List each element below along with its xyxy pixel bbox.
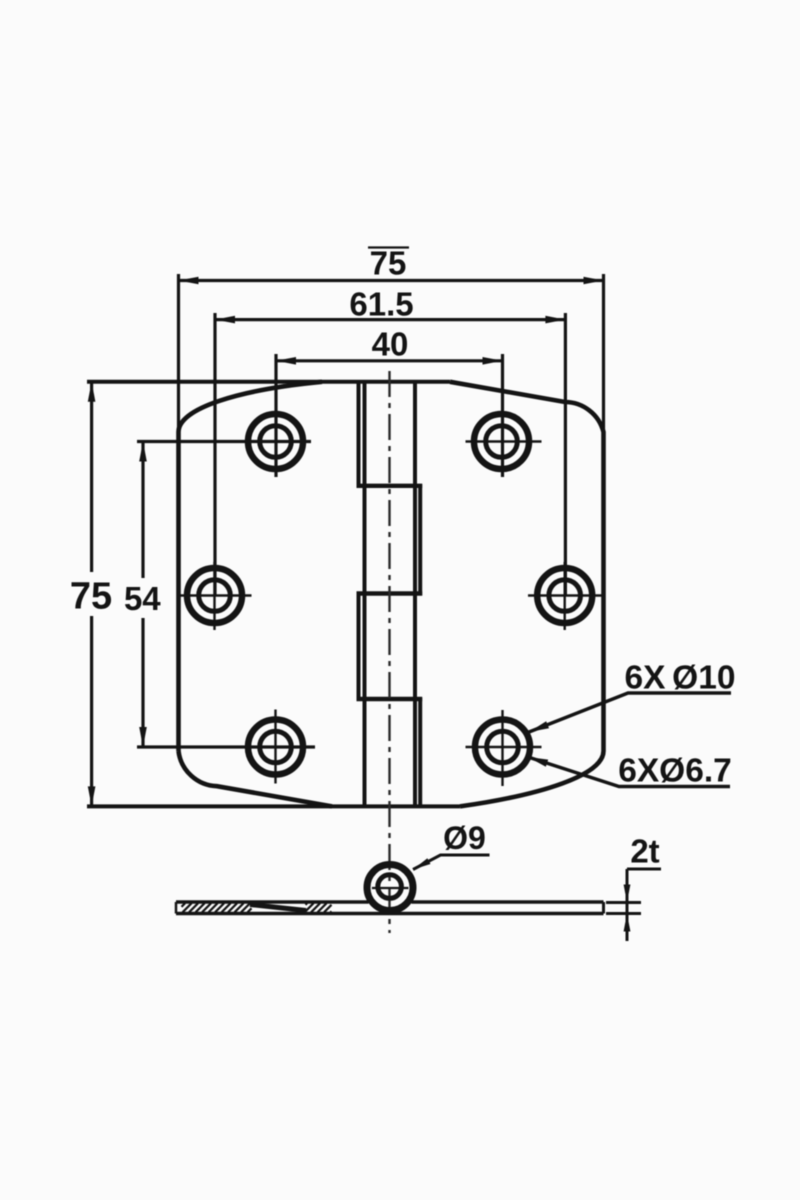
svg-text:61.5: 61.5 [349, 286, 413, 323]
svg-text:6XØ6.7: 6XØ6.7 [618, 753, 732, 790]
svg-text:6X Ø10: 6X Ø10 [624, 660, 735, 697]
svg-text:75: 75 [370, 245, 407, 282]
svg-text:75: 75 [70, 576, 112, 618]
svg-text:40: 40 [372, 326, 409, 363]
svg-text:54: 54 [124, 580, 161, 617]
svg-text:Ø9: Ø9 [443, 820, 486, 856]
svg-text:2t: 2t [630, 833, 659, 870]
